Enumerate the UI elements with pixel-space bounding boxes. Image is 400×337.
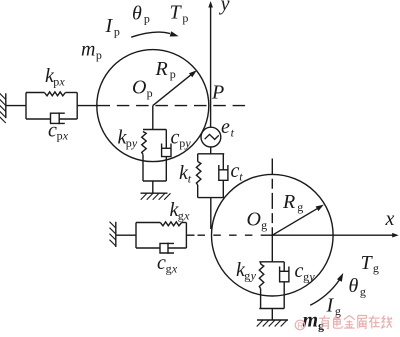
svg-text:t: t [239, 169, 243, 183]
x-axis [263, 234, 394, 236]
svg-text:y: y [250, 268, 257, 282]
svg-text:x: x [183, 208, 190, 222]
svg-text:p: p [96, 48, 102, 62]
svg-text:g: g [261, 218, 267, 232]
wire e_t to k_t box [210, 147, 212, 154]
rotation arrow theta_g [310, 280, 339, 306]
damper c_px (bottom branch) [26, 118, 51, 120]
spring k_gy (left branch) [260, 262, 262, 264]
x-axis arrowhead [392, 233, 399, 238]
svg-text:T: T [361, 252, 374, 274]
svg-text:g: g [166, 261, 172, 275]
excitation source e_t circle [201, 127, 221, 147]
k_py box bottom bar [143, 180, 166, 182]
svg-text:p: p [170, 67, 176, 81]
gear horizontal dashed centerline [198, 234, 264, 236]
svg-text:T: T [170, 2, 183, 24]
wall anchor left (pinion x support) [5, 93, 7, 118]
svg-text:x: x [385, 208, 395, 230]
svg-text:y: y [131, 136, 138, 150]
svg-text:P: P [211, 81, 224, 103]
svg-text:g: g [297, 200, 303, 214]
ground symbol under k_gy [257, 319, 288, 321]
wire k_gx box toward gear [186, 234, 194, 236]
wall anchor (gear x support) [115, 222, 117, 247]
svg-text:θ: θ [132, 2, 142, 24]
sine wave inside e_t [205, 134, 219, 139]
svg-text:m: m [81, 39, 95, 61]
svg-text:y: y [184, 136, 191, 150]
gear circle (mass m_g) [211, 174, 333, 296]
svg-text:y: y [219, 0, 230, 15]
svg-text:x: x [62, 129, 69, 143]
ground symbol under k_py [141, 192, 168, 194]
svg-text:O: O [132, 77, 146, 99]
svg-text:R: R [297, 321, 303, 331]
svg-text:R: R [282, 191, 295, 213]
svg-text:c: c [231, 160, 240, 182]
svg-text:x: x [171, 261, 178, 275]
svg-text:e: e [221, 116, 230, 138]
wire gear center down [271, 235, 273, 262]
svg-text:t: t [231, 126, 235, 140]
svg-text:p: p [114, 24, 120, 38]
y-axis arrowhead [208, 1, 213, 8]
wire k_gy to ground [271, 309, 273, 321]
svg-text:p: p [53, 74, 59, 88]
gear vertical dashed centerline [271, 159, 273, 236]
svg-text:g: g [360, 285, 366, 299]
svg-text:p: p [144, 12, 150, 26]
wire k_py to ground [152, 181, 154, 193]
k_gy box bottom bar [259, 308, 284, 310]
svg-text:R: R [155, 58, 168, 80]
svg-text:m: m [303, 309, 319, 331]
svg-text:p: p [126, 136, 132, 150]
svg-text:g: g [303, 269, 309, 283]
wire pinion center down [152, 106, 154, 130]
wire k_t box to gear [210, 198, 212, 229]
svg-text:y: y [308, 269, 315, 283]
svg-text:p: p [147, 86, 153, 100]
spring k_gx (top branch) [136, 222, 160, 224]
damper c_gy (right branch) [283, 262, 285, 272]
k_px box left side [25, 93, 27, 120]
radius arrow R_p [153, 74, 193, 106]
svg-text:I: I [105, 15, 114, 37]
spring k_px (top branch) [26, 92, 44, 94]
damper c_t (right branch) [222, 154, 224, 170]
damper c_py (right branch) [165, 130, 167, 149]
spring k_py (left branch) [142, 132, 147, 155]
watermark [295, 320, 305, 330]
k_gx box left side [135, 223, 137, 249]
wire wall to k_gx box [116, 234, 136, 236]
svg-text:O: O [247, 209, 261, 231]
pinion horizontal dashed centerline [98, 105, 251, 107]
k_t box top bar [198, 153, 225, 155]
wire wall to k_px box [6, 105, 26, 107]
k_px box right side [76, 93, 78, 120]
svg-text:p: p [182, 11, 188, 25]
svg-text:I: I [326, 295, 335, 317]
svg-text:g: g [244, 268, 250, 282]
y-axis [210, 7, 212, 128]
rotation arrow theta_p [131, 32, 170, 37]
k_py box top bar [143, 129, 166, 131]
svg-text:c: c [171, 127, 180, 149]
svg-text:x: x [58, 74, 65, 88]
svg-text:g: g [373, 261, 379, 275]
svg-text:t: t [188, 171, 192, 185]
k_gy box top bar [259, 261, 284, 263]
gear circle pinion (mass m_p) [97, 50, 209, 162]
svg-text:g: g [178, 208, 184, 222]
radius arrow R_g [272, 208, 319, 236]
svg-text:θ: θ [349, 275, 359, 297]
k_t box bottom bar [198, 197, 225, 199]
damper c_gx (bottom branch) [136, 247, 160, 249]
svg-text:p: p [179, 136, 185, 150]
svg-text:p: p [57, 129, 63, 143]
k_gx box right side [185, 223, 187, 249]
spring k_t (left branch) [197, 154, 199, 162]
wire k_px box to pinion [77, 105, 98, 107]
